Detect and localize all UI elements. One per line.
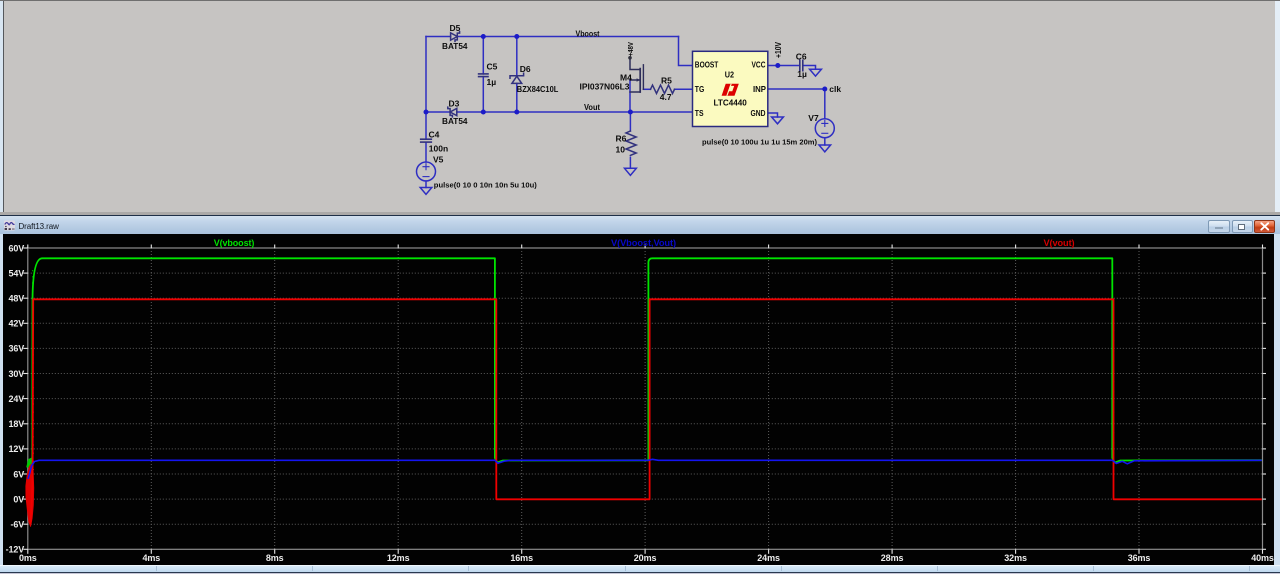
red trace V(vout) — [31, 299, 1262, 524]
plot grid — [28, 248, 1263, 549]
wire: left bus vertical — [425, 37, 427, 140]
svg-text:V(vboost): V(vboost) — [214, 238, 255, 248]
svg-text:6V: 6V — [13, 469, 24, 479]
blue trace V(Vboost,Vout) — [28, 459, 1262, 479]
wire: top Vboost rail D5 to BOOST corner — [458, 36, 679, 38]
waveform window black client area — [3, 234, 1274, 565]
svg-text:0ms: 0ms — [19, 553, 37, 563]
svg-text:40ms: 40ms — [1251, 553, 1274, 563]
ground of U2 GND pin — [772, 117, 784, 124]
top dark edge — [0, 0, 1280, 1]
svg-text:V(vout): V(vout) — [1044, 238, 1075, 248]
node: top rail / D6 — [514, 34, 519, 39]
title text — [19, 222, 139, 232]
schematic right frame strip — [1275, 1, 1280, 213]
x axis labels — [19, 553, 1274, 563]
waveform window top dark border — [0, 215, 1280, 217]
schematic drawing — [0, 0, 1280, 213]
wire: D6 upper — [516, 37, 518, 76]
schematic left frame dark line — [3, 1, 4, 213]
wire: BOOST vertical drop — [679, 37, 693, 66]
svg-text:42V: 42V — [8, 319, 24, 329]
svg-text:36V: 36V — [8, 344, 24, 354]
svg-text:20ms: 20ms — [634, 553, 657, 563]
wire: D6 lower — [516, 83, 518, 112]
wire: R5 to TG pin — [675, 88, 693, 90]
wire: C5 upper — [482, 37, 484, 74]
node: Vout rail / D6 — [514, 110, 519, 115]
green trace V(vboost) — [28, 258, 1262, 463]
svg-text:12V: 12V — [8, 444, 24, 454]
node: clk — [822, 87, 827, 92]
wire: INP pin to clk node — [768, 88, 825, 90]
node: Vout rail / M4 source / R6 — [628, 110, 633, 115]
restore button — [1232, 220, 1253, 233]
mosfet M4 — [630, 58, 643, 92]
schematic left frame strip — [0, 1, 3, 213]
voltage source V7 — [815, 119, 834, 138]
ground of V5 — [420, 188, 432, 195]
wire: V5 to ground — [425, 181, 427, 188]
node: +48V label anchor — [628, 56, 632, 60]
capacitor C5 — [479, 73, 488, 75]
wire: V7 to ground — [824, 138, 826, 145]
diode D5 BAT54 — [451, 33, 458, 40]
wire: C4 to V5 — [425, 142, 427, 162]
ground of R6 — [625, 168, 637, 175]
svg-text:18V: 18V — [8, 419, 24, 429]
svg-text:48V: 48V — [8, 294, 24, 304]
wire: VCC pin to C6 — [768, 65, 800, 67]
ground of V7 — [819, 145, 831, 152]
wire: clk node down to V7 — [824, 89, 826, 119]
svg-text:12ms: 12ms — [387, 553, 410, 563]
wire: C5 lower — [482, 77, 484, 112]
svg-text:24V: 24V — [8, 394, 24, 404]
svg-text:28ms: 28ms — [881, 553, 904, 563]
svg-text:-6V: -6V — [10, 520, 24, 530]
node: left bus / Vout rail — [424, 110, 429, 115]
node: top rail / C5 — [481, 34, 486, 39]
svg-text:60V: 60V — [8, 243, 24, 253]
wire: R6 bottom to ground — [629, 157, 631, 168]
svg-text:4ms: 4ms — [142, 553, 160, 563]
wire: M4 gate to R5 — [643, 88, 650, 90]
resistor R5 — [651, 85, 675, 93]
zener diode D6 — [510, 73, 524, 78]
svg-text:24ms: 24ms — [757, 553, 780, 563]
close button — [1254, 220, 1276, 233]
resistor R6 — [626, 131, 636, 155]
ground of C6 — [810, 69, 822, 76]
red startup transient blob — [26, 464, 34, 527]
LT logo inside U2 — [722, 84, 739, 96]
waveform window right strip — [1274, 234, 1280, 574]
wire: Vout rail D3 to TS pin — [457, 111, 693, 113]
axis ticks — [23, 245, 1266, 554]
plot border — [28, 248, 1263, 549]
svg-text:32ms: 32ms — [1004, 553, 1027, 563]
IC U2 LTC4440 box — [693, 51, 768, 126]
svg-text:8ms: 8ms — [266, 553, 284, 563]
wire: M4 source to Vout rail — [629, 80, 631, 112]
node: VCC / +10V anchor — [775, 63, 780, 68]
svg-text:36ms: 36ms — [1128, 553, 1151, 563]
transition sample dots — [33, 270, 1114, 470]
voltage source V5 — [417, 162, 436, 181]
green startup blob — [27, 458, 33, 467]
wire: GND pin stub — [768, 113, 778, 117]
svg-text:V(Vboost,Vout): V(Vboost,Vout) — [611, 238, 676, 248]
wire: C6 to its ground — [803, 66, 816, 70]
bottom status strip — [0, 565, 1280, 574]
diode D3 BAT54 — [450, 108, 457, 115]
title bar icon (LTspice raw file) — [4, 220, 15, 231]
divider above waveform window — [0, 212, 1280, 215]
y axis labels — [6, 243, 25, 554]
capacitor C4 — [421, 138, 432, 140]
svg-text:30V: 30V — [8, 369, 24, 379]
svg-text:54V: 54V — [8, 268, 24, 278]
svg-text:0V: 0V — [13, 494, 24, 504]
wire: top Vboost rail left of D5 — [426, 36, 451, 38]
capacitor C6 — [799, 60, 801, 70]
waveform window left strip — [0, 234, 3, 574]
node: Vout rail / C5 — [481, 110, 486, 115]
waveform title bar — [0, 216, 1280, 234]
minimize button — [1208, 220, 1230, 233]
svg-text:16ms: 16ms — [510, 553, 533, 563]
wire: R6 top — [629, 112, 631, 131]
schematic background — [0, 0, 1280, 213]
wire: Vout rail left of D3 — [426, 111, 450, 113]
status strip separators — [156, 566, 157, 571]
